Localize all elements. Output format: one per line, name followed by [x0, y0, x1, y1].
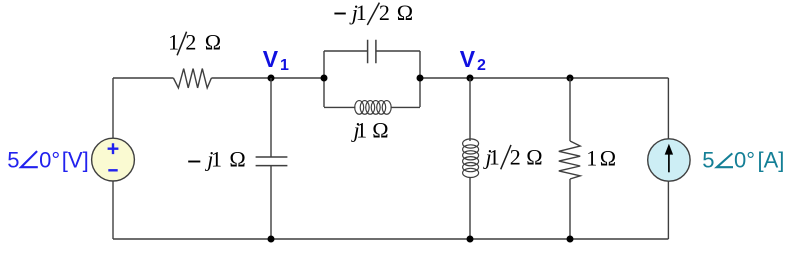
svg-text:2: 2 — [185, 30, 196, 55]
svg-text:1: 1 — [356, 0, 367, 25]
bottom node under V2 — [467, 236, 474, 243]
inductor L j1/2 branch upper wire — [469, 78, 471, 141]
label -j1/2 ohm — [334, 0, 413, 25]
node V1 label — [263, 46, 289, 74]
wire top rail left segment — [113, 77, 173, 79]
bottom node under 1 ohm — [567, 236, 574, 243]
current source arrow shaft — [668, 152, 670, 173]
svg-text:Ω: Ω — [229, 147, 245, 172]
node at LC box left — [321, 75, 328, 82]
svg-text:1: 1 — [586, 146, 597, 171]
svg-text:1: 1 — [211, 147, 222, 172]
LC box left vertical — [323, 51, 325, 107]
svg-text:1: 1 — [168, 30, 179, 55]
voltage source VS circle — [92, 138, 135, 181]
current source IS circle — [648, 139, 690, 181]
resistor R 1 ohm zigzag — [559, 141, 580, 179]
LC box right vertical — [419, 51, 421, 107]
wire left vertical lower — [112, 181, 114, 239]
node V2 dot — [467, 75, 474, 82]
svg-text:Ω: Ω — [526, 145, 542, 170]
resistor R 1 ohm branch lower wire — [569, 179, 571, 239]
label j1/2 ohm — [483, 145, 543, 170]
svg-text:2: 2 — [379, 0, 390, 25]
svg-text:Ω: Ω — [372, 117, 388, 142]
resistor R 1 ohm branch upper wire — [569, 78, 571, 141]
svg-text:[V]: [V] — [62, 147, 89, 172]
svg-text:V: V — [460, 46, 476, 72]
capacitor C -j1 branch lower wire — [270, 166, 272, 239]
svg-text:0°: 0° — [39, 147, 60, 172]
svg-text:1: 1 — [280, 57, 289, 74]
svg-text:1: 1 — [356, 117, 367, 142]
node V2 label — [460, 46, 486, 74]
label 5 angle 0 deg V — [7, 147, 89, 172]
voltage source minus sign — [108, 169, 117, 171]
label -j1 ohm — [188, 147, 246, 172]
svg-text:2: 2 — [510, 145, 521, 170]
svg-text:5: 5 — [7, 147, 19, 172]
wire left vertical upper — [112, 78, 114, 138]
current source arrow head — [665, 144, 673, 155]
svg-text:[A]: [A] — [758, 147, 785, 172]
inductor L j1/2 branch lower wire — [469, 177, 471, 239]
resistor R 1/2 ohm zigzag — [173, 69, 211, 88]
inductor L j1/2 coil loops — [463, 139, 479, 178]
voltage source plus sign — [108, 143, 119, 154]
label 1/2 ohm — [168, 30, 221, 56]
svg-text:Ω: Ω — [397, 0, 413, 25]
node at LC box right — [417, 75, 424, 82]
capacitor C -j1/2 plates — [368, 40, 376, 64]
svg-text:1: 1 — [489, 145, 500, 170]
wire right vertical upper — [667, 78, 669, 139]
label 1 ohm — [586, 146, 616, 171]
svg-text:2: 2 — [477, 57, 486, 74]
capacitor C -j1 plates — [256, 157, 288, 166]
svg-text:5: 5 — [702, 147, 714, 172]
capacitor C -j1 branch upper wire — [270, 78, 272, 157]
svg-text:V: V — [263, 46, 279, 72]
node V1 dot — [268, 75, 275, 82]
wire bottom rail — [113, 238, 668, 240]
svg-text:0°: 0° — [734, 147, 755, 172]
wire right vertical lower — [667, 181, 669, 239]
capacitor C -j1/2 top wires — [324, 50, 420, 52]
label j1 ohm — [351, 117, 389, 142]
node on top rail above 1 ohm — [567, 75, 574, 82]
wire top rail middle segment through node V1 — [211, 77, 324, 79]
inductor L j1 bottom wires — [324, 106, 420, 108]
label 5 angle 0 deg A — [702, 147, 784, 172]
wire top rail right segment — [420, 77, 668, 79]
svg-text:Ω: Ω — [205, 30, 221, 55]
inductor L j1 coil loops — [355, 101, 392, 115]
bottom node under V1 — [268, 236, 275, 243]
svg-text:Ω: Ω — [600, 146, 616, 171]
